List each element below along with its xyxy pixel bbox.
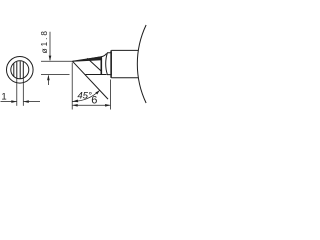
blade hatch line <box>87 58 101 71</box>
arrow dia1.8 up <box>47 75 50 80</box>
flare bottom curve <box>101 74 107 76</box>
front view blade chord line 1 <box>13 63 15 76</box>
side view bottom extension line <box>41 74 70 76</box>
front view inner circle <box>11 61 29 79</box>
flare top curve <box>101 53 107 56</box>
barrel break curve <box>137 25 146 103</box>
front view blade chord line 4 <box>22 62 24 78</box>
blade top edge lower line (wedge) <box>73 60 102 62</box>
arrow dim-6 right <box>105 104 111 107</box>
barrel top edge <box>111 49 138 51</box>
svg-text:6: 6 <box>91 94 97 106</box>
svg-text:45°: 45° <box>77 91 92 102</box>
dim-1 right extension line <box>22 78 24 106</box>
dim-6 right extension line <box>110 80 112 110</box>
front view outer circle <box>6 57 33 84</box>
barrel left edge <box>110 50 112 77</box>
arrow 45arc top-right <box>95 90 99 94</box>
front view blade chord line 2 <box>16 62 18 78</box>
svg-text:1: 1 <box>1 91 6 102</box>
dim-6 dimension line <box>73 104 110 106</box>
arrow dia1.8 down <box>49 56 52 61</box>
blade top edge upper line <box>73 57 102 61</box>
arrow 45arc bottom-left <box>72 100 78 103</box>
barrel bottom edge <box>111 77 138 79</box>
arrow dim-1 left <box>11 100 16 103</box>
blade top wedge fill <box>73 56 102 61</box>
dim-1 dimension line right <box>24 101 40 103</box>
dia-1.8 arrow-up line <box>47 76 49 85</box>
dia-1.8 leader line down <box>49 32 51 60</box>
dim-1 dimension line left <box>1 101 17 103</box>
front view blade chord line 3 <box>19 61 21 78</box>
dim-1 left extension line <box>16 78 18 106</box>
45deg dimension arc <box>72 90 99 101</box>
arrow dim-6 left <box>72 104 78 107</box>
collar rectangle <box>106 53 112 75</box>
arrow dim-1 right <box>23 100 29 103</box>
svg-text:ø1.8: ø1.8 <box>40 29 49 53</box>
blade bottom edge <box>86 74 102 76</box>
blade end vertical <box>100 57 102 75</box>
blade bevel 45 line and extension <box>73 61 109 99</box>
side view top extension line <box>41 60 73 62</box>
dim-6 left extension line <box>71 63 73 110</box>
